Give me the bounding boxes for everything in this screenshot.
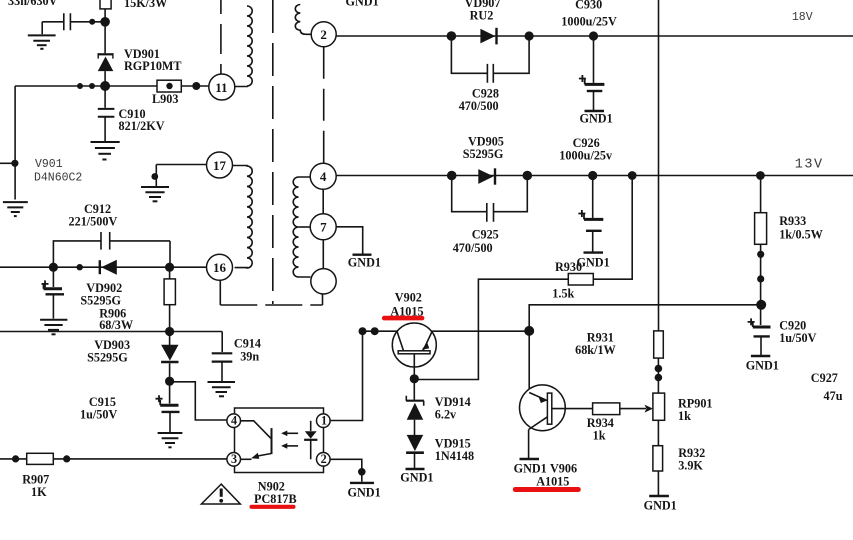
transformer terminal 4 [310, 163, 336, 189]
wire pin7 to GND1 [337, 227, 363, 254]
diode VD903 [161, 332, 178, 382]
svg-text:470/500: 470/500 [459, 99, 499, 113]
capacitor C913 electrolytic (unlabeled) [42, 267, 65, 318]
node dot small at cap wire [89, 19, 95, 25]
optocoupler N902 pin 1 [317, 414, 331, 428]
svg-text:S5295G: S5295G [80, 294, 121, 308]
node dot 18V C930 [589, 31, 598, 40]
diode VD901 triangle [98, 57, 114, 72]
ground GND1 (R932) [649, 495, 669, 497]
svg-text:17: 17 [213, 158, 227, 173]
wire VD901 to main node [104, 71, 106, 108]
svg-text:470/500: 470/500 [453, 241, 493, 255]
svg-text:6.2v: 6.2v [435, 408, 457, 422]
ground (33n cap) [28, 35, 56, 48]
wire C928 parallel branch [451, 36, 529, 73]
diode VD905 [478, 168, 495, 184]
node dot small y86 a [77, 83, 83, 89]
wire C912 branch [53, 241, 170, 267]
wire VD903 node to opto pin4 [170, 382, 227, 420]
transformer T901 core dashed line [272, 0, 274, 304]
svg-text:2: 2 [321, 452, 327, 466]
svg-text:GND1: GND1 [346, 0, 379, 9]
ground GND1 (VD915) [406, 468, 425, 470]
transformer secondary winding pin2 [295, 5, 311, 35]
diode VD902 triangle [101, 260, 117, 275]
optocoupler N902 body box [235, 408, 324, 473]
svg-text:L903: L903 [152, 92, 178, 106]
wire V902 collector-emitter line [363, 330, 530, 332]
ground (C914) [208, 382, 236, 396]
svg-text:A1015: A1015 [536, 475, 569, 489]
svg-text:1000u/25V: 1000u/25V [561, 15, 617, 29]
svg-text:R930: R930 [555, 260, 582, 274]
node dot V902 line left b [371, 327, 379, 335]
svg-text:3: 3 [231, 452, 237, 466]
svg-text:RGP10MT: RGP10MT [124, 59, 182, 73]
wire bottom pin lead [322, 294, 324, 305]
svg-text:11: 11 [215, 80, 227, 95]
red underline PC817B [250, 505, 296, 509]
svg-text:68/3W: 68/3W [99, 318, 133, 332]
svg-text:RU2: RU2 [470, 9, 494, 23]
warning triangle symbol [201, 484, 240, 504]
svg-text:47u: 47u [824, 389, 843, 403]
svg-text:C925: C925 [472, 228, 499, 242]
wire 15K resistor to VD901 node [104, 9, 106, 53]
wire vertical bus to R931 [658, 0, 660, 331]
svg-text:1k/0.5W: 1k/0.5W [779, 228, 823, 242]
svg-text:68k/1W: 68k/1W [575, 343, 616, 357]
wire 18V rail [336, 35, 853, 37]
svg-text:18V: 18V [792, 11, 813, 24]
ground GND1 (pin7) [353, 253, 372, 255]
wire V906 base to R934 [551, 408, 593, 410]
svg-text:GND1: GND1 [348, 486, 381, 500]
node dot 13V VD905 right [523, 171, 533, 181]
wire secondary mid tap to pin7 [299, 226, 311, 228]
svg-text:1u/50V: 1u/50V [779, 331, 816, 345]
svg-text:3.9K: 3.9K [678, 459, 703, 473]
svg-text:C930: C930 [575, 0, 602, 12]
node dot 13V VD905 left [447, 171, 457, 181]
wire RP901 to R932 [657, 420, 659, 445]
wire opto pin1 up to V902 line [330, 331, 362, 420]
diode VD907 [480, 28, 496, 45]
wire V906 collector lead [528, 331, 530, 393]
node dot pin17 ground wire [151, 173, 158, 180]
svg-text:13V: 13V [795, 158, 824, 173]
capacitor C914 plates [212, 353, 233, 361]
node dot below R933 b [757, 275, 764, 282]
svg-text:1000u/25v: 1000u/25v [559, 149, 613, 163]
capacitor C912 plates [101, 232, 110, 250]
svg-text:D4N60C2: D4N60C2 [34, 172, 82, 185]
node dot C912 left junction [49, 263, 58, 272]
transformer dashed link above pin11 [220, 0, 222, 74]
svg-text:GND1: GND1 [400, 471, 433, 485]
node dot pin2 gnd wire [358, 468, 366, 476]
node dot 18V VD907 left [447, 31, 457, 41]
ground (C915) [158, 433, 183, 447]
wire main line y=86 (VD901 node to L903/pin11) [15, 85, 157, 87]
svg-text:S5295G: S5295G [463, 147, 504, 161]
diode VD901 cathode bar [98, 53, 114, 55]
wire C910 to ground [104, 117, 106, 141]
svg-text:GND1: GND1 [514, 462, 547, 476]
resistor R932 box [653, 446, 663, 471]
wire 13V rail [337, 175, 853, 177]
svg-text:1k: 1k [678, 409, 691, 423]
optocoupler N902 photodiode [304, 421, 317, 460]
wire stub y=163 [0, 162, 15, 164]
node dot VD901 top node [100, 17, 110, 27]
node dot below R931 b [655, 374, 663, 382]
ground GND1 (C926) [584, 251, 604, 253]
svg-text:821/2KV: 821/2KV [119, 119, 165, 133]
node dot stub junction [11, 160, 18, 167]
transformer terminal 11 [209, 74, 235, 100]
wire dashed bottom link [220, 304, 322, 306]
resistor R934 box [593, 403, 620, 415]
svg-text:16: 16 [213, 260, 227, 275]
node dot main VD901/C910 junction [100, 81, 110, 91]
svg-text:1K: 1K [31, 485, 47, 499]
svg-text:GND1: GND1 [746, 359, 779, 373]
node dot 13V C926 [588, 171, 597, 180]
svg-text:GND1: GND1 [348, 256, 381, 270]
svg-text:C914: C914 [234, 337, 261, 351]
transformer terminal 16 [207, 254, 233, 280]
capacitor C915 electrolytic [156, 381, 180, 432]
resistor R930 box [568, 274, 593, 286]
wire C925 parallel branch [452, 176, 528, 212]
ground GND1 (C930) [585, 110, 605, 112]
svg-text:GND1: GND1 [644, 499, 677, 513]
svg-text:V901: V901 [35, 158, 63, 171]
transformer dashed link pin2-pin4 [323, 47, 325, 164]
transistor V902 body [392, 323, 436, 379]
ground GND1 (opto pin2) [350, 482, 374, 484]
svg-text:1.5k: 1.5k [552, 287, 574, 301]
node dot small y86 b [89, 83, 95, 89]
node dot small y267 [77, 264, 83, 270]
capacitor C920 electrolytic [748, 318, 771, 355]
wire main line y=267 (to pin16) [0, 266, 207, 268]
inductor L903 core dot [166, 83, 172, 89]
svg-text:4: 4 [231, 414, 237, 428]
node dot V902/V906 junction [524, 326, 534, 336]
wire pin17 to ground [156, 165, 207, 187]
svg-text:4: 4 [320, 169, 327, 184]
node dot R907 left [12, 455, 19, 462]
node dot 13V R933 [756, 171, 765, 180]
node dot C920 top junction [756, 300, 766, 310]
capacitor C925 plates [487, 203, 494, 222]
transformer terminal bottom (unnumbered) [311, 269, 336, 294]
potentiometer RP901 box [653, 393, 665, 420]
red underline V902 A1015 [382, 316, 425, 321]
diode VD902 cathode bar [99, 260, 101, 274]
ground (C913) [40, 320, 67, 335]
red underline V906 A1015 [513, 487, 581, 492]
wire R906 leads [169, 267, 171, 331]
svg-text:GND1: GND1 [580, 112, 613, 126]
inductor L903 box [157, 80, 181, 92]
transformer secondary winding pins 4-7-bottom [293, 177, 310, 277]
wire R907 line y=459 [0, 458, 227, 460]
svg-text:1: 1 [321, 414, 327, 428]
transformer terminal 17 [207, 152, 233, 178]
svg-text:C927: C927 [811, 371, 838, 385]
transformer primary winding upper [235, 6, 252, 87]
svg-text:PC817B: PC817B [254, 492, 297, 506]
svg-text:15K/3W: 15K/3W [124, 0, 167, 10]
wire cap 33n left lead [42, 22, 64, 35]
resistor R933 box [755, 213, 767, 245]
svg-text:7: 7 [320, 220, 327, 235]
capacitor C926 electrolytic [578, 176, 603, 252]
wire pin4 to pin7 link [322, 189, 324, 214]
svg-text:S5295G: S5295G [87, 351, 128, 365]
ground (C910) [91, 142, 120, 160]
wire C914 to ground [221, 362, 223, 381]
resistor 15K/3W (cut at top) [100, 0, 111, 9]
zener diode VD914 [406, 379, 424, 435]
wire opto pin2 to GND1 [330, 459, 362, 481]
svg-text:1u/50V: 1u/50V [80, 408, 117, 422]
wire R931 to RP901 [657, 358, 659, 393]
node dot 13V R930 [628, 171, 637, 180]
wire left drop x=15 to ground [14, 86, 16, 200]
ground (left edge V901) [3, 202, 28, 216]
optocoupler N902 light arrows [281, 431, 298, 449]
node dot below R931 a [655, 365, 663, 373]
svg-text:39n: 39n [240, 350, 259, 364]
svg-text:R933: R933 [779, 214, 806, 228]
node dot V902 base junction [410, 374, 419, 383]
svg-text:2: 2 [320, 27, 327, 42]
wire R930 right lead to 13V [593, 176, 632, 280]
node dot R907 right [63, 455, 70, 462]
svg-text:33n/630V: 33n/630V [8, 0, 58, 8]
wire pin16 bottom lead [219, 280, 221, 305]
svg-text:1N4148: 1N4148 [435, 449, 474, 463]
ground (pin17 wire) [141, 187, 169, 201]
optocoupler N902 pin 4 [227, 414, 241, 428]
svg-text:1k: 1k [593, 429, 606, 443]
optocoupler N902 LED [240, 421, 271, 460]
resistor R931 box [654, 331, 664, 358]
capacitor C930 electrolytic [579, 36, 605, 110]
wire main line y=331.5 (to C914) [0, 331, 222, 333]
wire cap 33n to node [70, 21, 105, 23]
node dot VD903/C915 junction [165, 377, 174, 386]
svg-text:V906: V906 [550, 462, 577, 476]
optocoupler N902 pin 3 [227, 453, 241, 467]
ground GND1 (C920) [751, 355, 770, 357]
svg-text:221/500V: 221/500V [69, 215, 118, 229]
transistor V906 body [520, 385, 566, 458]
diode VD915 [406, 435, 424, 468]
transformer terminal 7 [310, 214, 336, 240]
wire R934 to RP901 wiper arrow [620, 408, 646, 410]
svg-text:V902: V902 [395, 291, 422, 305]
node dot below R933 a [757, 251, 764, 258]
resistor R907 box [27, 453, 54, 464]
wire R932 to GND1 [657, 471, 659, 495]
wire main y331 corner to C914 [221, 332, 223, 353]
node dot C912/R906 junction [165, 263, 174, 272]
capacitor 33n plates [64, 13, 71, 30]
capacitor C928 plates [487, 64, 493, 83]
node dot R906/VD903 junction [165, 327, 174, 336]
transformer terminal 2 [311, 22, 336, 47]
wire V902 collector to C920 node [529, 305, 761, 331]
node dot pin11 wire [192, 82, 200, 90]
ground GND1 (V906 emitter) [520, 458, 540, 460]
wire R930 left lead to V902 base [414, 279, 568, 379]
transformer primary winding lower [233, 166, 253, 269]
capacitor C910 plates [98, 109, 115, 117]
resistor R906 box [164, 279, 175, 305]
optocoupler N902 pin 2 [317, 453, 331, 467]
node dot 18V VD907 right [525, 31, 534, 40]
wire pin7 to bottom pin link [322, 240, 324, 269]
wire R933 leads [760, 176, 762, 326]
node dot V902 line left a [359, 327, 367, 335]
